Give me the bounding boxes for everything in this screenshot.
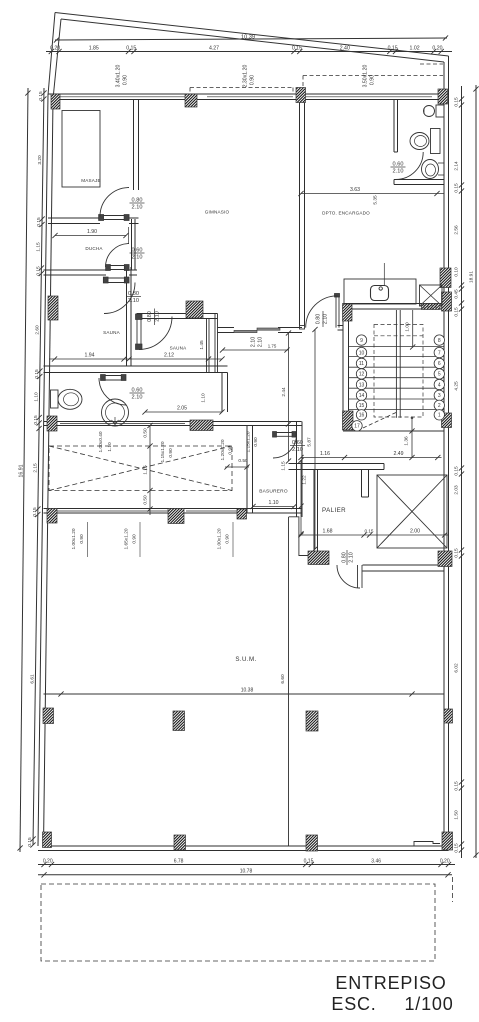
svg-text:3.63: 3.63 — [350, 187, 360, 193]
bath sink — [424, 106, 435, 117]
stair step numbers right (8-1) — [434, 335, 444, 345]
masaje east wall — [133, 100, 135, 191]
window sill dashed 2.30 — [190, 87, 293, 89]
svg-text:0.80: 0.80 — [132, 198, 143, 204]
svg-text:1.15x1.20: 1.15x1.20 — [246, 431, 252, 452]
right overall dim line — [475, 85, 477, 858]
svg-text:SAUNA: SAUNA — [103, 330, 121, 335]
svg-text:0.90: 0.90 — [253, 437, 259, 447]
svg-text:2.44: 2.44 — [281, 387, 287, 397]
svg-text:0.60: 0.60 — [393, 162, 404, 168]
svg-text:3.20: 3.20 — [37, 155, 43, 165]
stair stringer — [395, 310, 397, 418]
svg-text:0.80: 0.80 — [342, 552, 348, 563]
svg-text:0.20: 0.20 — [43, 859, 53, 865]
svg-text:5.35: 5.35 — [373, 195, 379, 205]
masaje bed — [62, 111, 100, 188]
svg-text:MASAJE: MASAJE — [81, 178, 101, 183]
svg-text:0.90: 0.90 — [370, 75, 376, 85]
right overall dim end ticks — [473, 86, 478, 857]
bath south wall — [394, 179, 444, 181]
door ducha leaf — [106, 265, 129, 267]
top wall window lines — [60, 96, 185, 98]
palier south wall — [363, 564, 445, 566]
column top partition — [296, 88, 306, 103]
column bottom right — [442, 832, 453, 850]
sum mid line ticks — [58, 691, 414, 696]
kitchenette sink — [371, 286, 389, 301]
svg-text:0.15: 0.15 — [292, 46, 302, 52]
door jamb wall — [338, 325, 344, 327]
svg-text:1.00x1.20: 1.00x1.20 — [217, 528, 223, 549]
column sauna left wall — [48, 296, 58, 320]
svg-text:0.50: 0.50 — [238, 458, 248, 464]
column wc left — [47, 416, 57, 431]
masaje/ducha wall — [131, 219, 133, 270]
svg-text:0.90: 0.90 — [123, 75, 129, 85]
svg-text:1.10: 1.10 — [268, 500, 278, 506]
svg-text:0.80: 0.80 — [128, 291, 139, 297]
stair west wall — [342, 304, 344, 431]
dim 1.94/2.12 line — [49, 358, 222, 360]
bath toilet — [431, 129, 441, 154]
svg-text:0.15: 0.15 — [27, 837, 33, 847]
patio dashed box — [41, 884, 435, 961]
svg-text:1.68: 1.68 — [322, 529, 332, 535]
dim 1.10 basurero — [253, 506, 294, 508]
door masaje leaf — [99, 215, 129, 217]
column right dpto — [440, 268, 451, 288]
left room dim line — [33, 88, 44, 845]
column sum right wall — [444, 709, 453, 723]
basurero east wall — [296, 422, 298, 518]
svg-text:3.50x1.20: 3.50x1.20 — [363, 64, 369, 87]
svg-text:2.10: 2.10 — [155, 311, 161, 322]
svg-text:2.00: 2.00 — [410, 529, 420, 535]
svg-text:2.56: 2.56 — [454, 225, 460, 235]
svg-text:2.15: 2.15 — [32, 463, 38, 473]
door sauna2 arc — [139, 317, 172, 350]
svg-text:0.45: 0.45 — [454, 289, 460, 299]
landing edge line — [343, 430, 444, 432]
dim 2.44 partition — [288, 333, 290, 424]
dim 1.90 ducha — [55, 235, 126, 237]
svg-text:2.10: 2.10 — [132, 395, 143, 401]
door dpto arc — [306, 296, 338, 328]
svg-text:0.90: 0.90 — [79, 534, 85, 544]
svg-text:0.15: 0.15 — [454, 466, 460, 476]
svg-text:1: 1 — [438, 413, 441, 419]
svg-text:2.60: 2.60 — [34, 325, 40, 335]
top dim ticks — [49, 49, 444, 54]
svg-text:15: 15 — [359, 403, 365, 409]
svg-text:2.30x1.20: 2.30x1.20 — [243, 64, 249, 87]
column bottom mid-right — [306, 835, 318, 851]
sum mid line — [44, 693, 445, 695]
svg-text:10.39: 10.39 — [241, 35, 255, 41]
void dashed box — [49, 446, 232, 491]
svg-text:2.12: 2.12 — [164, 353, 174, 359]
svg-text:14: 14 — [359, 393, 365, 399]
svg-text:1.10: 1.10 — [34, 392, 40, 402]
svg-text:6: 6 — [438, 361, 441, 367]
svg-text:1.50: 1.50 — [454, 810, 460, 820]
door dpto leaf — [335, 296, 337, 328]
dim line mid — [222, 349, 289, 351]
dim 1.36 — [411, 418, 413, 458]
door basurero arc — [273, 435, 297, 459]
svg-text:2.10: 2.10 — [349, 552, 355, 563]
svg-text:4.25: 4.25 — [454, 381, 460, 391]
sauna2 top wall — [137, 313, 218, 315]
column sum free right — [306, 711, 318, 731]
ducha bottom wall — [44, 269, 107, 271]
column top right — [438, 89, 448, 104]
svg-text:0.90: 0.90 — [168, 448, 174, 458]
svg-text:0.80: 0.80 — [316, 314, 322, 325]
svg-text:0.15: 0.15 — [454, 183, 460, 193]
svg-text:0.50: 0.50 — [143, 495, 149, 505]
svg-text:2.03: 2.03 — [454, 485, 460, 495]
bottom dim line 2 — [38, 874, 452, 876]
svg-text:1.36: 1.36 — [404, 436, 410, 446]
svg-text:1.00: 1.00 — [405, 322, 411, 332]
sauna2 east wall — [206, 319, 208, 373]
stair dashed outline — [374, 325, 423, 418]
void dim vertical — [149, 426, 151, 516]
bottom dim line 1 — [38, 864, 455, 866]
svg-text:0.15: 0.15 — [33, 415, 39, 425]
svg-text:0.60: 0.60 — [292, 440, 303, 446]
right wall — [448, 56, 450, 851]
top wall outer — [48, 93, 449, 95]
sauna1 east wall — [126, 267, 128, 366]
stair top wall — [343, 303, 449, 305]
column bottom mid-left — [174, 835, 186, 850]
dim 1.68/0.15/2.00 — [301, 534, 448, 536]
svg-text:1.15: 1.15 — [281, 461, 287, 471]
svg-text:GIMNASIO: GIMNASIO — [205, 210, 230, 215]
svg-text:0.15: 0.15 — [388, 46, 398, 52]
door sauna1 arc — [104, 283, 135, 314]
svg-text:18.91: 18.91 — [469, 271, 475, 283]
stair step numbers left (9-17) — [356, 335, 366, 345]
svg-text:6.60: 6.60 — [280, 674, 286, 684]
svg-text:0.90: 0.90 — [250, 75, 256, 85]
site boundary left (inner) — [53, 19, 61, 99]
svg-text:0.60: 0.60 — [132, 248, 143, 254]
door bath arc — [396, 152, 424, 180]
svg-text:4: 4 — [438, 382, 441, 388]
svg-text:PALIER: PALIER — [322, 507, 346, 514]
svg-text:ESC.: ESC. — [331, 994, 376, 1014]
svg-text:1.10: 1.10 — [107, 442, 113, 452]
column sum free left — [173, 711, 185, 731]
lot dashed right — [452, 877, 454, 902]
svg-text:0.15: 0.15 — [36, 217, 42, 227]
svg-text:2: 2 — [438, 403, 441, 409]
svg-text:3.46: 3.46 — [371, 859, 381, 865]
stair dashed tread — [374, 335, 423, 337]
basurero west wall — [246, 426, 248, 514]
svg-text:0.90: 0.90 — [225, 534, 231, 544]
svg-text:9: 9 — [360, 338, 363, 344]
svg-text:DUCHA: DUCHA — [85, 246, 103, 251]
column stair top-left — [343, 304, 353, 322]
svg-text:2.10: 2.10 — [323, 314, 329, 325]
svg-text:0.20: 0.20 — [50, 46, 60, 52]
svg-text:2.10: 2.10 — [132, 205, 143, 211]
top wall inner — [53, 99, 444, 101]
dim 2.05 wc — [145, 411, 222, 413]
column right stair-top — [442, 292, 452, 311]
dim 1.15 partition low — [288, 424, 290, 461]
masaje bottom wall — [48, 217, 100, 219]
svg-text:10.38: 10.38 — [241, 688, 254, 694]
wc toilet — [51, 390, 59, 408]
column sum-wall mid — [168, 509, 184, 524]
svg-text:13: 13 — [359, 382, 365, 388]
svg-text:0.15: 0.15 — [365, 529, 374, 534]
svg-text:10.78: 10.78 — [240, 869, 253, 875]
left room dim ticks — [30, 90, 46, 847]
gym south wall west — [218, 327, 235, 329]
svg-text:0.60: 0.60 — [132, 388, 143, 394]
svg-text:0.20: 0.20 — [432, 46, 442, 52]
svg-text:10: 10 — [359, 350, 365, 356]
partition gym/dpto — [299, 100, 301, 326]
svg-text:0.15: 0.15 — [454, 548, 460, 558]
svg-text:3: 3 — [438, 393, 441, 399]
svg-text:1.85: 1.85 — [89, 46, 99, 52]
svg-text:1.00x1.20: 1.00x1.20 — [71, 528, 77, 549]
right room dim ticks — [459, 96, 464, 852]
partition cap — [300, 326, 305, 330]
right room dim line — [461, 86, 463, 858]
svg-text:1.75: 1.75 — [268, 344, 277, 349]
left overall dim end ticks — [18, 90, 31, 850]
void dim 0.50 right — [225, 466, 249, 468]
svg-text:0.15: 0.15 — [304, 859, 314, 865]
door sauna2 leaf — [136, 314, 138, 350]
bath west wall — [393, 100, 395, 153]
svg-text:12: 12 — [359, 372, 365, 378]
svg-text:0.20: 0.20 — [440, 859, 450, 865]
svg-text:0.15: 0.15 — [34, 369, 40, 379]
door sauna1 leaf — [103, 277, 129, 279]
svg-text:5: 5 — [438, 372, 441, 378]
svg-text:4.27: 4.27 — [209, 46, 219, 52]
shaft x-box — [420, 285, 443, 306]
svg-text:6.61: 6.61 — [29, 674, 35, 684]
svg-text:5.87: 5.87 — [307, 437, 313, 447]
palier wall stem — [361, 470, 363, 498]
sum north wall — [44, 508, 303, 510]
svg-text:0.50: 0.50 — [143, 428, 149, 438]
svg-text:S.U.M.: S.U.M. — [235, 656, 256, 663]
site boundary top (outer slant) — [55, 13, 449, 57]
door masaje arc — [100, 188, 129, 217]
svg-text:0.15: 0.15 — [38, 91, 44, 101]
wc round basin — [102, 399, 129, 426]
svg-text:2.05: 2.05 — [177, 406, 187, 412]
svg-text:16: 16 — [359, 413, 365, 419]
svg-text:6.78: 6.78 — [174, 859, 184, 865]
svg-text:2.10: 2.10 — [292, 447, 303, 453]
svg-text:1/100: 1/100 — [404, 994, 453, 1014]
svg-text:DPTO. ENCARGADO: DPTO. ENCARGADO — [322, 211, 370, 216]
dim 5.87 stairhall — [314, 329, 316, 549]
svg-text:0.15: 0.15 — [126, 46, 136, 52]
saunas bottom wall — [44, 365, 228, 367]
dim 3.63 dpto — [301, 193, 444, 195]
window sill dashed 3.50 — [303, 75, 443, 77]
svg-text:0.15: 0.15 — [35, 266, 41, 276]
sum divider line — [288, 517, 290, 846]
svg-text:16.91: 16.91 — [19, 464, 25, 477]
dimension line 10.39 — [55, 38, 447, 40]
left overall dim line — [20, 88, 28, 852]
svg-text:0.90: 0.90 — [132, 534, 138, 544]
svg-text:1.02: 1.02 — [410, 46, 420, 52]
svg-text:2.40: 2.40 — [340, 46, 350, 52]
column top-left — [51, 94, 60, 109]
svg-text:1.22: 1.22 — [302, 475, 308, 485]
bottom wall — [38, 850, 449, 852]
column palier door — [308, 551, 329, 565]
svg-text:1.90: 1.90 — [87, 229, 97, 235]
column right stair-bottom — [442, 413, 452, 428]
svg-text:6.02: 6.02 — [454, 663, 460, 673]
svg-text:0.15: 0.15 — [454, 97, 460, 107]
wc east wall — [221, 373, 223, 413]
svg-text:11: 11 — [359, 361, 364, 367]
stair dim 1.00 — [412, 310, 414, 348]
svg-text:3.40x1.20: 3.40x1.20 — [116, 64, 122, 87]
bottom dim2 ticks — [41, 872, 450, 877]
column palier right — [438, 551, 452, 567]
bath bidet — [422, 160, 439, 179]
palier west wall — [313, 470, 315, 552]
svg-text:1.20x1.20: 1.20x1.20 — [220, 439, 226, 460]
column sauna2 — [186, 301, 203, 318]
column stair bottom-left — [343, 411, 354, 430]
svg-text:2.10: 2.10 — [128, 298, 139, 304]
svg-text:1.10: 1.10 — [201, 393, 207, 403]
grille — [422, 304, 441, 310]
column sum left wall — [43, 708, 54, 724]
dim 1.16/2.49 palier — [301, 457, 442, 459]
svg-text:1.94: 1.94 — [84, 353, 94, 359]
door ducha arc — [106, 244, 130, 268]
bottom-right wall notch — [414, 842, 440, 847]
column sum-wall left — [47, 509, 57, 524]
door basurero leaf — [273, 432, 297, 434]
stair dashed diagonal — [363, 412, 397, 428]
svg-text:2.10: 2.10 — [132, 255, 143, 261]
svg-text:0.15: 0.15 — [454, 307, 460, 317]
svg-text:0.10: 0.10 — [454, 267, 460, 277]
svg-text:1.45: 1.45 — [199, 340, 205, 350]
svg-text:BASURERO: BASURERO — [259, 489, 288, 495]
svg-text:7: 7 — [438, 350, 441, 356]
skylight x-box — [377, 475, 447, 548]
svg-text:2.49: 2.49 — [393, 451, 403, 457]
dim 10.39 end ticks — [54, 35, 448, 42]
svg-text:2.14: 2.14 — [454, 161, 460, 171]
svg-text:1.16: 1.16 — [320, 451, 330, 457]
wc/void wall — [44, 421, 302, 423]
svg-text:SAUNA: SAUNA — [170, 346, 188, 351]
gym sliding door leaves — [234, 330, 257, 332]
column basurero — [237, 509, 247, 519]
door wc leaf — [101, 375, 127, 377]
palier floor step edge — [289, 517, 310, 556]
palier north wall — [289, 463, 385, 465]
stair treads — [349, 346, 445, 409]
door sum arc — [337, 565, 360, 588]
svg-text:0.15: 0.15 — [454, 843, 460, 853]
left wall — [38, 94, 48, 846]
door wc arc — [99, 378, 126, 405]
site boundary left (outer) — [48, 13, 55, 96]
bottom dim1 ticks — [41, 862, 451, 867]
svg-text:2.10: 2.10 — [251, 337, 257, 348]
column wc mid — [190, 420, 213, 431]
svg-text:17: 17 — [354, 424, 360, 430]
svg-text:0.80: 0.80 — [147, 311, 153, 322]
svg-text:ENTREPISO: ENTREPISO — [335, 973, 446, 993]
column top mid — [185, 94, 197, 107]
svg-text:1.15x1.20: 1.15x1.20 — [160, 441, 166, 462]
svg-text:0.15: 0.15 — [454, 781, 460, 791]
svg-text:0.15: 0.15 — [32, 507, 38, 517]
site boundary top (inner slant) — [61, 19, 444, 62]
svg-text:2.10: 2.10 — [258, 337, 264, 348]
column bottom left — [43, 832, 52, 848]
gym south wall east — [278, 327, 302, 329]
svg-text:1.65x1.20: 1.65x1.20 — [124, 528, 130, 549]
dim palier vertical — [300, 460, 302, 533]
svg-text:8: 8 — [438, 338, 441, 344]
svg-text:1.00x0.40: 1.00x0.40 — [98, 431, 104, 452]
top dimension line segments — [46, 51, 452, 53]
svg-text:1.15: 1.15 — [36, 242, 42, 252]
door sum leaf — [357, 565, 359, 588]
kitchenette counter — [344, 279, 416, 304]
svg-text:2.10: 2.10 — [393, 169, 404, 175]
